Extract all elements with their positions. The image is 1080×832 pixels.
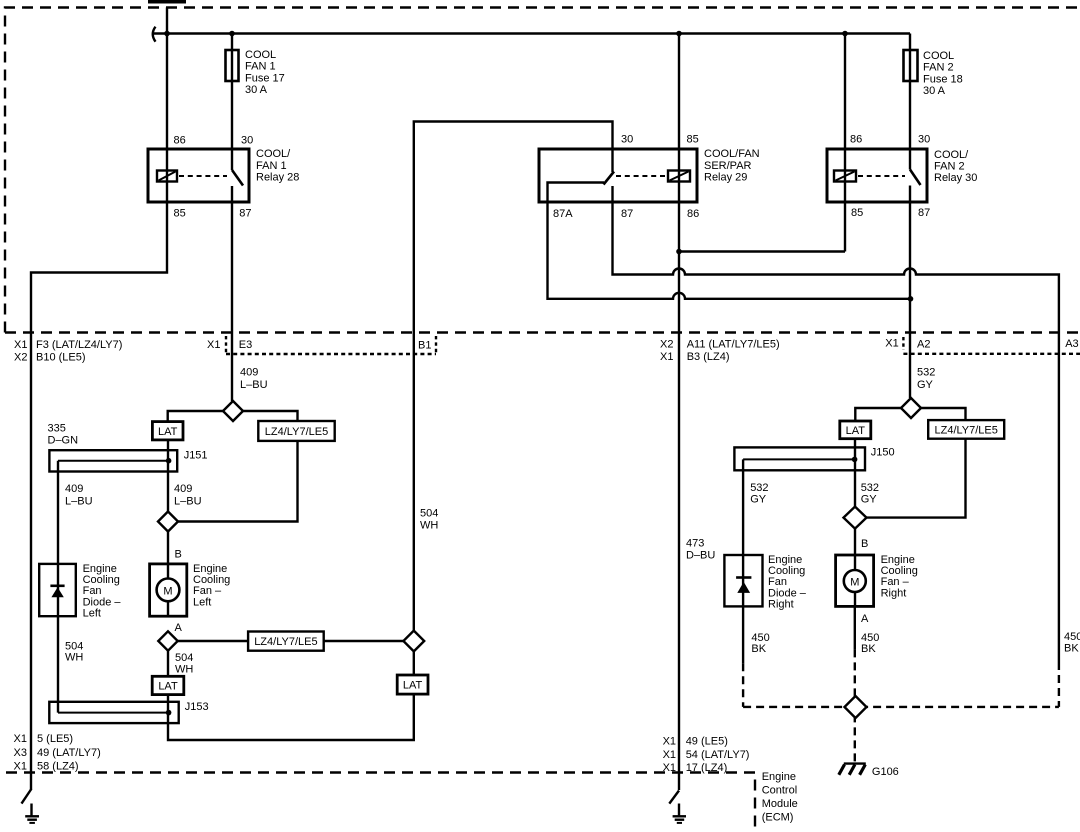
svg-text:COOL: COOL <box>923 50 954 62</box>
dashed ground wire: A3 riser down <box>1058 662 1060 707</box>
svg-text:532: 532 <box>861 482 879 494</box>
svg-text:Fan: Fan <box>768 576 787 588</box>
wire label 335 D-GN <box>48 423 79 447</box>
connector row: fuse block X1/X2 F3-B10 labels <box>14 339 122 364</box>
svg-text:30 A: 30 A <box>923 85 946 97</box>
wire: diode right to ground bus (solid part) <box>742 606 744 663</box>
svg-text:LZ4/LY7/LE5: LZ4/LY7/LE5 <box>934 425 997 437</box>
svg-text:409: 409 <box>65 483 83 495</box>
wire: relay 29 pin 87A to relay 30 pin 87 (hop over 473) <box>548 202 911 299</box>
LAT variant tag box (right upper) <box>840 421 871 439</box>
relay K29 name label <box>704 148 760 183</box>
wire: relay 28 pin 87 to E3 (circuit 409) <box>231 202 233 401</box>
connector A2-A3 dotted link <box>903 353 1080 355</box>
svg-text:Left: Left <box>193 596 211 608</box>
connector C4 diamond (504 WH to B1) <box>403 631 424 652</box>
node: feed junction at relay 28 pin 86 <box>164 31 170 37</box>
connector C2 diamond (fan left pin B) <box>158 512 178 532</box>
svg-text:A3: A3 <box>1065 338 1078 350</box>
fuse 18 label <box>923 50 963 97</box>
connector C5 diamond (532 to variants, right) <box>901 398 921 418</box>
wire label 450 BK (A3 riser) <box>1064 631 1080 654</box>
svg-text:5 (LE5): 5 (LE5) <box>37 733 73 745</box>
svg-text:49 (LE5): 49 (LE5) <box>686 735 728 747</box>
wire: diamond C3 to LAT tag <box>167 651 169 677</box>
ECM connector labels (left, X1/X3/X1 5-49-58) <box>14 733 101 773</box>
node: feed junction at fuse 17 <box>229 31 235 37</box>
LZ4/LY7/LE5 variant tag box (left upper) <box>258 421 334 441</box>
relay K29 box <box>539 149 697 202</box>
motor M2 name label <box>881 554 918 599</box>
svg-text:B1: B1 <box>418 339 431 351</box>
wire: diamond C4 to LAT tag <box>413 651 415 675</box>
LAT variant tag box (bottom right of left fan) <box>397 675 428 694</box>
relay K30 coil-switch dashed link <box>858 175 905 177</box>
wire: diamond to LZ4 inline tag <box>178 640 248 642</box>
wire: diamond to LZ4/LY7/LE5 branch <box>243 411 298 421</box>
wire label 409 L-BU (E3 drop) <box>240 367 268 391</box>
bus bar terminal (top, clipped) <box>148 0 186 4</box>
wire: diamond C5 to LAT tag (right) <box>855 408 901 421</box>
wire: J151 to connector diamond <box>167 461 169 512</box>
svg-text:SER/PAR: SER/PAR <box>704 160 752 172</box>
wire: drop through fuse 18 to relay 30 pin 30 <box>909 34 911 150</box>
fuse 17 label <box>245 49 285 96</box>
svg-text:Diode –: Diode – <box>83 596 122 608</box>
wire label 450 BK (motor right leg) <box>861 632 879 655</box>
LZ4/LY7/LE5 variant tag box (right upper) <box>928 420 1004 439</box>
svg-text:LAT: LAT <box>158 426 178 438</box>
diode D1 symbol <box>50 586 64 598</box>
connector row: X1 E3 label <box>207 339 252 351</box>
splice J150 box <box>734 447 865 470</box>
svg-text:GY: GY <box>917 379 934 391</box>
svg-text:B: B <box>861 538 868 550</box>
wire: battery feed horizontal <box>153 32 910 34</box>
relay K28 coil <box>157 171 177 182</box>
svg-text:58 (LZ4): 58 (LZ4) <box>37 761 79 773</box>
svg-text:Right: Right <box>881 587 907 599</box>
svg-text:Fuse 18: Fuse 18 <box>923 73 963 85</box>
wire: B1 feed riser to relay 29 pin 30 <box>414 122 613 631</box>
relay K29 coil <box>668 171 690 182</box>
motor M1 name label <box>193 563 230 608</box>
svg-text:86: 86 <box>174 135 186 147</box>
svg-text:532: 532 <box>917 367 935 379</box>
connector B1 dotted bracket riser <box>435 336 437 354</box>
svg-text:30 A: 30 A <box>245 84 268 96</box>
wire: J151 to fan diode left (circuit 409/504) <box>57 461 59 713</box>
svg-text:A: A <box>861 613 869 625</box>
ground symbol (left ECM internal ground) <box>25 804 39 823</box>
node: junction 87A to relay30 pin 87 <box>908 296 914 302</box>
svg-text:87: 87 <box>621 208 633 220</box>
underhood fuse block boundary (dashed box) <box>5 8 1080 333</box>
svg-text:BK: BK <box>751 643 766 655</box>
connector row: X1 A2 label <box>885 338 930 351</box>
svg-text:A: A <box>175 622 183 634</box>
svg-text:Fan: Fan <box>83 585 102 597</box>
svg-text:Module: Module <box>762 798 798 810</box>
svg-text:A11 (LAT/LY7/LE5): A11 (LAT/LY7/LE5) <box>687 338 780 350</box>
svg-text:J150: J150 <box>871 446 895 458</box>
wire label 504 WH (below fan left pin A) <box>175 652 193 675</box>
svg-text:FAN 1: FAN 1 <box>245 61 276 73</box>
wire: diamond C5 to LZ4 tag (right) <box>921 408 966 420</box>
ground lead break (right) <box>669 791 679 804</box>
wire label 504 WH (B1 riser) <box>420 508 438 532</box>
svg-text:M: M <box>163 585 172 597</box>
svg-text:COOL/FAN: COOL/FAN <box>704 148 760 160</box>
wire label 504 WH (diode left leg) <box>65 640 83 663</box>
svg-text:Control: Control <box>762 784 797 796</box>
wire: feed continuation arc <box>153 27 156 42</box>
ground lead break (left) <box>22 789 32 804</box>
relay K29 switch blade <box>604 172 615 185</box>
svg-text:450: 450 <box>751 632 769 644</box>
ECM connector labels (right, X1 49-54-17) <box>663 735 750 774</box>
svg-text:86: 86 <box>687 208 699 220</box>
svg-text:E3: E3 <box>239 339 252 351</box>
wire: drop to relay 28 pin 86 <box>166 8 168 150</box>
node: J153 splice junction <box>166 710 172 716</box>
wire label 473 D-BU (ECM coil control) <box>686 538 715 562</box>
svg-text:WH: WH <box>65 652 83 664</box>
svg-text:85: 85 <box>851 207 863 219</box>
diode D2 symbol <box>736 578 751 593</box>
svg-text:85: 85 <box>687 134 699 146</box>
svg-text:LAT: LAT <box>158 681 178 693</box>
wire: relay 28 pin 85 to ECM connector F3/B10 (circuit 335) <box>31 202 167 790</box>
svg-text:30: 30 <box>918 134 930 146</box>
svg-text:Relay 30: Relay 30 <box>934 172 977 184</box>
LZ4/LY7/LE5 variant tag box (bottom center) <box>248 632 324 651</box>
wire: diamond C6 to LZ4 tag riser (right) <box>867 439 966 518</box>
svg-text:X1: X1 <box>663 749 676 761</box>
relay K30 switch <box>910 149 921 185</box>
motor M2 (engine cooling fan right) box <box>836 555 874 606</box>
diode D2 (engine cooling fan diode right) box <box>724 555 762 606</box>
wire: J150 to fan diode right <box>742 459 744 606</box>
svg-text:86: 86 <box>850 134 862 146</box>
svg-text:G106: G106 <box>872 766 899 778</box>
svg-text:GY: GY <box>861 494 878 506</box>
svg-text:D–GN: D–GN <box>48 435 79 447</box>
svg-text:FAN 2: FAN 2 <box>923 62 954 74</box>
connector C1 diamond (409 splice to variants) <box>223 401 243 421</box>
svg-text:L–BU: L–BU <box>174 495 202 507</box>
svg-text:LZ4/LY7/LE5: LZ4/LY7/LE5 <box>265 426 328 438</box>
svg-text:WH: WH <box>420 520 438 532</box>
svg-text:LAT: LAT <box>403 680 423 692</box>
wire: J153 to LAT return riser <box>168 694 414 740</box>
svg-text:B10 (LE5): B10 (LE5) <box>36 352 86 364</box>
svg-text:87A: 87A <box>553 208 573 220</box>
connector C6 diamond (fan right pin B) <box>844 507 867 529</box>
svg-text:B: B <box>175 549 182 561</box>
connector C7 diamond (ground bus) <box>845 696 867 718</box>
wire: relay 28 pin 86 through coil <box>166 149 168 202</box>
svg-text:X2: X2 <box>660 338 673 350</box>
fuse F18 body <box>904 50 918 81</box>
svg-text:504: 504 <box>420 508 438 520</box>
svg-text:X1: X1 <box>660 351 673 363</box>
wire label 532 GY (A2 drop) <box>917 367 935 391</box>
svg-text:L–BU: L–BU <box>65 495 93 507</box>
splice J151 box <box>49 450 177 471</box>
wire: diamond to LZ4 tag riser <box>178 441 298 522</box>
connector C3 diamond (fan left pin A) <box>158 631 177 650</box>
svg-text:J151: J151 <box>184 449 208 461</box>
svg-text:WH: WH <box>175 663 193 675</box>
node: feed junction at relay 29 pin 85 <box>676 31 682 37</box>
wire through motor box (right) <box>854 555 856 606</box>
wire label 409 L-BU (J151 left leg) <box>65 483 93 508</box>
svg-text:87: 87 <box>918 207 930 219</box>
svg-text:Engine: Engine <box>762 771 796 783</box>
svg-text:Diode –: Diode – <box>768 587 807 599</box>
svg-text:COOL/: COOL/ <box>934 149 969 161</box>
svg-text:Relay 29: Relay 29 <box>704 172 747 184</box>
svg-text:504: 504 <box>175 652 193 664</box>
svg-text:Right: Right <box>768 599 794 611</box>
node: J151 splice junction <box>166 458 172 464</box>
svg-text:GY: GY <box>750 494 767 506</box>
svg-text:30: 30 <box>621 134 633 146</box>
motor M1 (engine cooling fan left) box <box>150 564 187 616</box>
svg-text:LZ4/LY7/LE5: LZ4/LY7/LE5 <box>254 636 317 648</box>
svg-text:FAN 1: FAN 1 <box>256 160 287 172</box>
connector E3-B1 dotted link <box>226 353 436 355</box>
wire label 409 L-BU (J151 center leg) <box>174 483 202 508</box>
relay K28 box <box>148 149 249 202</box>
dashed ground wire: motor A down to G106 <box>854 649 856 762</box>
ground symbol (right ECM internal ground) <box>673 804 686 823</box>
wire: relay 29 pin 87 to A3 riser (hops over 473 and 532) <box>613 186 1059 662</box>
diode D2 name label <box>768 554 807 611</box>
svg-text:M: M <box>850 577 859 589</box>
svg-text:D–BU: D–BU <box>686 550 715 562</box>
svg-text:F3 (LAT/LZ4/LY7): F3 (LAT/LZ4/LY7) <box>36 339 122 351</box>
wire: relay 30 pin 87 to A2 (circuit 532) <box>909 186 911 399</box>
svg-text:X2: X2 <box>14 352 27 364</box>
wire: LAT tag to splice J150 <box>854 439 856 460</box>
svg-text:532: 532 <box>750 482 768 494</box>
relay K28 switch <box>232 149 243 202</box>
relay K30 coil <box>834 171 856 182</box>
wire label 450 BK (diode right leg) <box>751 632 769 655</box>
connector row: X2/X1 A11-B3 labels <box>660 338 780 363</box>
relay K28 name label <box>256 148 299 183</box>
splice J153 box <box>49 702 178 723</box>
wire: LAT tag to splice J153 <box>167 695 169 713</box>
ECM boundary (dashed) <box>6 773 755 832</box>
wire label 532 GY (J150 left leg) <box>750 482 768 505</box>
wire: J150 to connector diamond C6 <box>854 459 856 506</box>
svg-text:450: 450 <box>1064 631 1080 643</box>
wire through motor box <box>167 564 169 616</box>
svg-text:Left: Left <box>83 608 101 620</box>
diode D1 (engine cooling fan diode left) box <box>39 564 76 616</box>
dashed ground bus horizontal <box>743 706 1059 708</box>
svg-text:X1: X1 <box>663 735 676 747</box>
wire label 532 GY (J150 center leg) <box>861 482 879 505</box>
LAT variant tag box (bottom left) <box>152 676 184 694</box>
svg-text:X1: X1 <box>14 761 27 773</box>
node: junction relay 29 pin 86 / relay 30 pin 85 <box>676 249 682 255</box>
fuse F17 body <box>226 50 239 81</box>
node: feed junction at relay 30 pin 86 <box>842 31 848 37</box>
svg-text:X1: X1 <box>207 339 220 351</box>
svg-text:X1: X1 <box>885 338 898 350</box>
connector E3 dotted bracket riser <box>225 336 227 354</box>
relay K30 name label <box>934 149 977 184</box>
svg-text:504: 504 <box>65 640 83 652</box>
relay K29 pin 87A internal contact <box>548 183 605 203</box>
motor M1 circle <box>157 579 180 602</box>
svg-text:409: 409 <box>240 367 258 379</box>
connector A2 dotted bracket riser <box>902 337 904 350</box>
svg-text:A2: A2 <box>917 338 930 350</box>
svg-text:X1: X1 <box>14 733 27 745</box>
svg-text:L–BU: L–BU <box>240 379 268 391</box>
svg-text:87: 87 <box>239 208 251 220</box>
wire: drop to relay 30 pin 86 and pin 85 jumper corner <box>844 34 846 252</box>
motor M2 circle <box>844 570 866 592</box>
svg-text:473: 473 <box>686 538 704 550</box>
relay K30 box <box>827 149 927 202</box>
wire: drop to relay 29 pin 85 and on to ECM (circuit 473) <box>678 34 680 791</box>
wire: LZ4 tag to diamond C4 <box>324 640 404 642</box>
wire: diamond to LAT branch <box>168 411 223 422</box>
svg-text:J153: J153 <box>185 701 209 713</box>
svg-text:(ECM): (ECM) <box>762 811 794 823</box>
svg-text:FAN 2: FAN 2 <box>934 161 965 173</box>
svg-text:49 (LAT/LY7): 49 (LAT/LY7) <box>37 747 101 759</box>
svg-text:409: 409 <box>174 483 192 495</box>
svg-text:COOL/: COOL/ <box>256 148 291 160</box>
dashed ground wire: diode right down <box>742 663 744 707</box>
svg-text:BK: BK <box>1064 642 1079 654</box>
node: J150 splice junction <box>852 457 858 463</box>
relay K28 coil-switch dashed link <box>179 175 227 177</box>
svg-text:30: 30 <box>241 135 253 147</box>
wire: diamond to motor pin B <box>167 532 169 564</box>
svg-text:450: 450 <box>861 632 879 644</box>
wire: diamond C6 to motor pin B (right) <box>854 529 856 555</box>
ECM name label <box>762 771 798 824</box>
svg-text:Fan –: Fan – <box>193 585 222 597</box>
svg-text:Fuse 17: Fuse 17 <box>245 72 285 84</box>
wire: drop through fuse 17 to relay 28 pin 30 <box>231 34 233 150</box>
svg-text:335: 335 <box>48 423 66 435</box>
svg-text:LAT: LAT <box>846 425 866 437</box>
svg-text:COOL: COOL <box>245 49 276 61</box>
svg-text:54 (LAT/LY7): 54 (LAT/LY7) <box>686 749 750 761</box>
LAT variant tag box (left upper) <box>152 422 183 440</box>
wire: relay 29 pin 86 to relay 30 pin 85 <box>679 250 845 252</box>
svg-text:BK: BK <box>861 643 876 655</box>
svg-text:Fan –: Fan – <box>881 576 910 588</box>
svg-text:B3 (LZ4): B3 (LZ4) <box>687 351 730 363</box>
svg-text:Relay 28: Relay 28 <box>256 172 299 184</box>
ground G106 symbol <box>839 764 866 775</box>
svg-text:X3: X3 <box>14 747 27 759</box>
relay K29 coil-switch dashed link <box>616 175 666 177</box>
svg-text:X1: X1 <box>14 339 27 351</box>
diode D1 name label <box>83 563 122 620</box>
svg-text:85: 85 <box>174 208 186 220</box>
wire: LAT tag to splice J151 <box>167 440 169 461</box>
wire: motor right pin A to ground bus (solid part) <box>854 606 856 649</box>
